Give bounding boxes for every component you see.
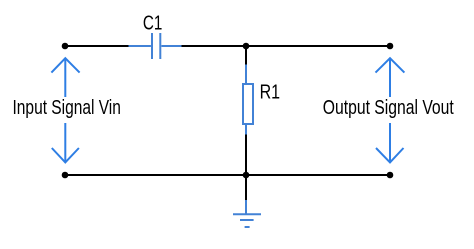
node: bottom-left junction xyxy=(62,172,69,179)
svg-text:Output Signal Vout: Output Signal Vout xyxy=(323,96,454,118)
node: top-left junction xyxy=(62,43,69,50)
wire: top rail right segment xyxy=(182,45,391,47)
wire: middle branch upper xyxy=(245,46,247,65)
label Output Signal Vout xyxy=(320,97,455,123)
ground xyxy=(233,200,261,227)
label Input Signal Vin xyxy=(10,97,120,123)
output signal arrow xyxy=(376,58,405,162)
svg-text:C1: C1 xyxy=(143,11,162,34)
svg-text:Input Signal Vin: Input Signal Vin xyxy=(13,96,121,118)
wire: top rail left segment xyxy=(65,45,129,47)
wire: ground stem xyxy=(245,175,247,200)
svg-text:R1: R1 xyxy=(260,81,280,103)
node: bottom-middle junction xyxy=(243,172,250,179)
node: top-middle junction xyxy=(243,43,250,50)
wire: middle branch lower xyxy=(245,135,247,176)
wire: bottom rail xyxy=(65,174,390,176)
input signal arrow xyxy=(51,58,79,162)
node: bottom-right junction xyxy=(387,172,394,179)
capacitor C1 xyxy=(129,33,182,59)
node: top-right junction xyxy=(387,43,394,50)
resistor R1 xyxy=(243,65,253,135)
